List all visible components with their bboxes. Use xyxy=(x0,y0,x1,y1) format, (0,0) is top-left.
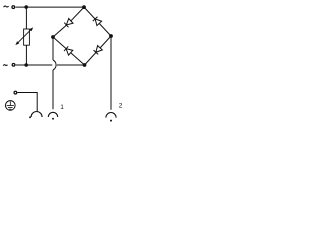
wire left DC vertical upper xyxy=(52,37,54,60)
terminal circle earth tap xyxy=(14,91,17,94)
wire left DC vertical lower xyxy=(52,70,54,109)
node dot top junction (varistor tap) xyxy=(24,5,28,9)
wire right DC vertical xyxy=(110,36,112,110)
varistor R1 top lead wire xyxy=(25,7,27,29)
terminal circle top-left xyxy=(12,6,15,9)
node dot bridge left xyxy=(51,35,55,39)
connector 1 socket arc xyxy=(48,112,57,117)
node dot bridge right xyxy=(109,34,113,38)
svg-text:1: 1 xyxy=(60,104,64,111)
bridge edge wire B-R xyxy=(85,36,112,65)
AC source tilde (top input) xyxy=(4,6,9,7)
bridge edge wire L-B xyxy=(53,37,85,65)
node dot bridge bottom xyxy=(83,63,87,67)
varistor R1 body xyxy=(24,29,30,45)
node dot bridge top xyxy=(82,5,86,9)
protective earth symbol xyxy=(6,101,16,111)
connector PE socket arc xyxy=(31,112,42,117)
connector 1 pin dot xyxy=(52,118,54,120)
wire from earth terminal to connector PE xyxy=(17,93,37,112)
wire bottom horizontal right of hop xyxy=(57,64,85,66)
diode D2 on top-right edge xyxy=(93,17,102,26)
diode D3 on bottom-left edge xyxy=(64,46,73,55)
svg-text:2: 2 xyxy=(119,102,123,109)
varistor R1 bottom lead wire xyxy=(25,45,27,65)
diode D1 on top-left edge xyxy=(64,18,73,27)
wire bottom horizontal left of hop xyxy=(16,64,53,66)
connector PE pin dot xyxy=(29,116,31,118)
bridge edge wire T-L xyxy=(53,7,84,37)
bridge edge wire T-R xyxy=(84,7,111,36)
node dot bottom junction (varistor tap) xyxy=(24,63,28,67)
connector 2 pin dot xyxy=(110,120,112,122)
varistor R1 variability arrow xyxy=(15,27,33,45)
connector 2 socket arc xyxy=(106,113,116,118)
AC source tilde (bottom input) xyxy=(3,65,7,66)
wire hop over bottom wire xyxy=(53,60,56,70)
wire top horizontal xyxy=(16,6,85,8)
diode D4 on bottom-right edge xyxy=(93,46,102,55)
terminal circle bottom-left xyxy=(12,63,15,66)
